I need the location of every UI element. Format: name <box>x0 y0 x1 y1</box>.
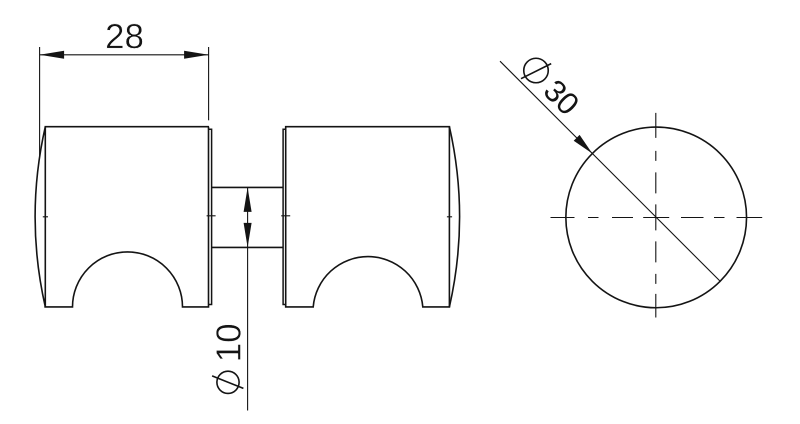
dim 30 arrow <box>574 135 593 154</box>
right knob dome silhouette <box>449 127 459 307</box>
dim 10 arrow down <box>244 223 252 248</box>
phi symbol of dim 10 <box>217 371 239 393</box>
right washer <box>283 129 286 304</box>
left washer <box>209 129 212 304</box>
dim text 28 <box>107 24 143 49</box>
dim 28 arrow right <box>184 51 209 59</box>
left knob body <box>44 127 209 307</box>
dim 28 extension line left <box>39 47 41 157</box>
dim 28 arrow left <box>40 51 65 59</box>
left knob dome silhouette <box>35 127 45 307</box>
front view circle <box>566 127 747 308</box>
dim 10 vertical line <box>247 187 249 410</box>
horizontal centerline <box>551 217 763 219</box>
left washer center tick <box>207 215 216 217</box>
right washer center tick <box>281 215 290 217</box>
dim text 10 (rotated) <box>216 325 241 360</box>
shaft <box>212 187 284 247</box>
dim text 30 (rotated) <box>542 78 580 116</box>
dim 30 leader line <box>500 61 720 281</box>
dim 10 arrow up <box>244 187 252 212</box>
right knob tangent tick <box>447 216 452 218</box>
vertical centerline <box>655 113 657 318</box>
dim 28 extension line right <box>208 47 210 120</box>
left knob tangent tick <box>43 216 48 218</box>
dim 28 line <box>40 54 209 56</box>
right knob body <box>286 127 450 307</box>
phi symbol of dim 30 <box>524 58 549 83</box>
